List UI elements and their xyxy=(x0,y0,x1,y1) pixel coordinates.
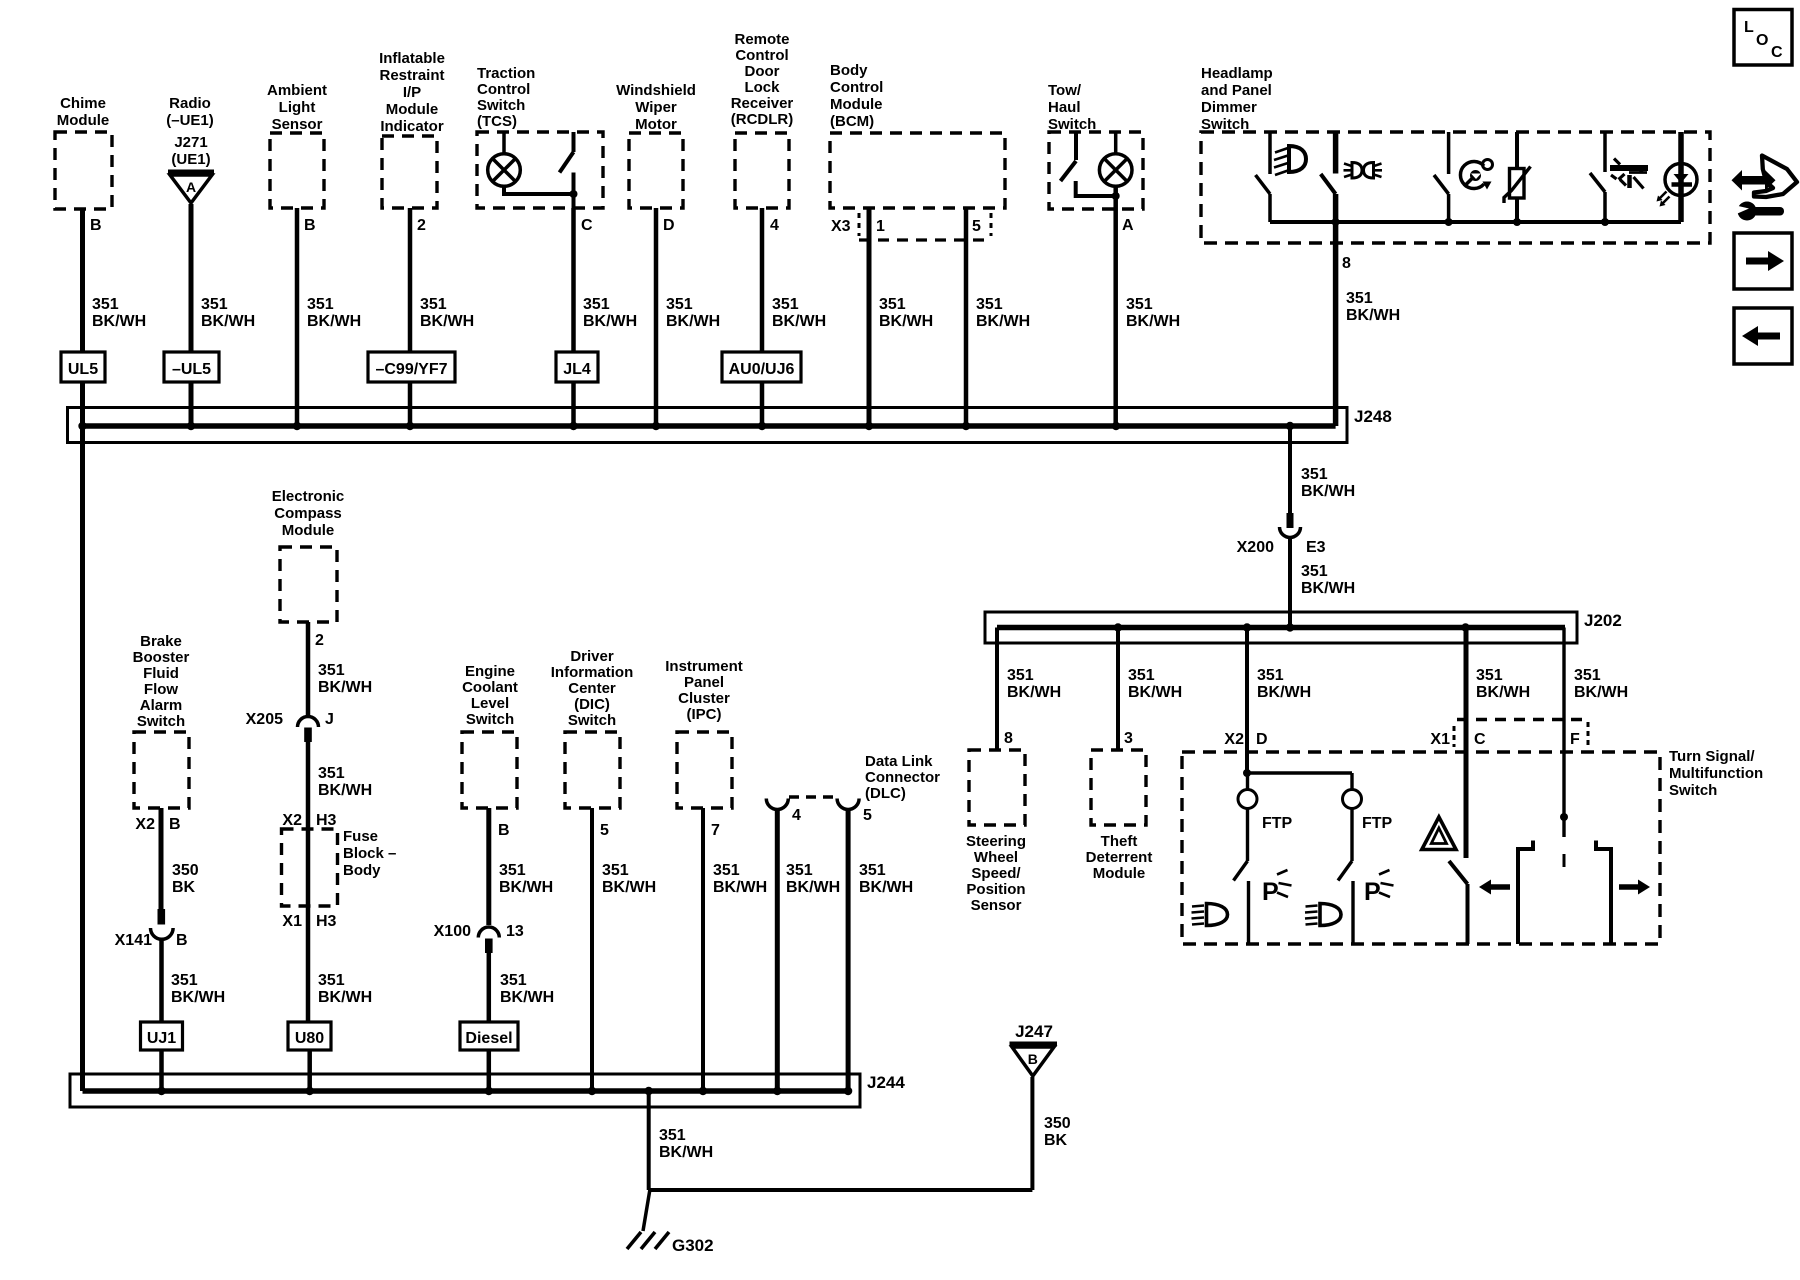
svg-text:Traction: Traction xyxy=(477,65,535,82)
svg-text:Module: Module xyxy=(57,112,110,129)
svg-text:Engine: Engine xyxy=(465,663,515,680)
wire label 351 BK/WH DLC4 xyxy=(786,862,840,896)
wire label 351 BK/WH fuse to U80 xyxy=(318,972,372,1006)
svg-text:BK/WH: BK/WH xyxy=(92,313,146,330)
connector X200 xyxy=(1280,513,1301,538)
svg-text:Wiper: Wiper xyxy=(635,99,677,116)
turn switch pole dash xyxy=(1563,854,1566,867)
fuse block label xyxy=(343,828,396,879)
svg-text:350: 350 xyxy=(172,862,199,879)
label JL4 xyxy=(556,352,598,382)
svg-text:Theft: Theft xyxy=(1101,833,1138,850)
svg-text:BK/WH: BK/WH xyxy=(500,989,554,1006)
splice pack J248 outline xyxy=(68,408,1348,443)
wire J247 to ground run xyxy=(1030,1077,1034,1190)
svg-text:Tow/: Tow/ xyxy=(1048,82,1082,99)
svg-text:BK/WH: BK/WH xyxy=(307,313,361,330)
svg-text:4: 4 xyxy=(792,807,801,824)
svg-text:7: 7 xyxy=(711,822,720,839)
svg-text:351: 351 xyxy=(772,296,799,313)
svg-text:351: 351 xyxy=(92,296,119,313)
svg-text:(UE1): (UE1) xyxy=(171,151,210,168)
svg-text:X141: X141 xyxy=(115,932,152,949)
svg-text:Flow: Flow xyxy=(144,681,178,698)
svg-text:351: 351 xyxy=(659,1127,686,1144)
svg-text:Control: Control xyxy=(830,79,883,96)
electronic compass module label xyxy=(272,488,345,539)
svg-text:351: 351 xyxy=(1007,667,1034,684)
svg-text:BK/WH: BK/WH xyxy=(1301,580,1355,597)
svg-text:Block –: Block – xyxy=(343,845,396,862)
svg-text:351: 351 xyxy=(976,296,1003,313)
svg-text:BK: BK xyxy=(1044,1132,1068,1149)
left FTP contact circle xyxy=(1238,790,1257,809)
svg-text:(TCS): (TCS) xyxy=(477,113,517,130)
engine coolant level switch box xyxy=(462,732,517,808)
splice pack J202 outline xyxy=(985,612,1577,643)
svg-text:351: 351 xyxy=(318,662,345,679)
svg-text:Ambient: Ambient xyxy=(267,82,327,99)
svg-text:Control: Control xyxy=(735,47,788,64)
wire ambient to bus J248 xyxy=(295,208,300,426)
tow/haul junction xyxy=(1112,192,1120,200)
label -UL5 xyxy=(164,352,219,382)
wire label 350 BK J247 xyxy=(1044,1115,1071,1149)
svg-text:UL5: UL5 xyxy=(68,361,98,378)
wire label 351 BK/WH BCM5 xyxy=(976,296,1030,330)
connector J271 (UE1) label xyxy=(171,134,210,168)
svg-text:13: 13 xyxy=(506,923,524,940)
svg-text:BK/WH: BK/WH xyxy=(1476,684,1530,701)
wire ground node to J247 riser xyxy=(649,1188,1033,1192)
svg-text:8: 8 xyxy=(1004,730,1013,747)
wire label 350 BK brake booster xyxy=(172,862,199,896)
svg-text:–UL5: –UL5 xyxy=(172,361,211,378)
svg-text:(–UE1): (–UE1) xyxy=(166,112,214,129)
DRL icon xyxy=(1344,163,1383,179)
svg-text:(IPC): (IPC) xyxy=(687,706,722,723)
windshield wiper motor box xyxy=(629,133,683,208)
svg-text:Lock: Lock xyxy=(744,79,780,96)
headlamp and panel dimmer switch box xyxy=(1201,132,1710,243)
svg-text:BK/WH: BK/WH xyxy=(318,989,372,1006)
svg-text:351: 351 xyxy=(786,862,813,879)
svg-text:Booster: Booster xyxy=(133,649,190,666)
wire RCDLR AU0/UJ6 to bus J248 xyxy=(760,382,765,426)
junction dots J202 xyxy=(1114,623,1470,631)
svg-text:Sensor: Sensor xyxy=(272,116,323,133)
svg-text:U80: U80 xyxy=(295,1030,324,1047)
wire X100 to Diesel xyxy=(487,953,492,1022)
connector X205 xyxy=(298,717,319,743)
svg-text:Electronic: Electronic xyxy=(272,488,345,505)
svg-text:BK/WH: BK/WH xyxy=(1574,684,1628,701)
left low beam icon xyxy=(1192,904,1228,926)
previous page arrow box xyxy=(1734,308,1792,364)
wire label 351 BK/WH IPC xyxy=(713,862,767,896)
svg-text:G302: G302 xyxy=(672,1236,714,1255)
wire DIC to J244 xyxy=(590,808,594,1091)
headlamp switch branch 1 xyxy=(1256,132,1271,222)
svg-text:Multifunction: Multifunction xyxy=(1669,765,1763,782)
inflatable restraint I/P module indicator label xyxy=(379,50,445,135)
instrument cluster icon xyxy=(1460,160,1492,190)
connector X100 xyxy=(478,927,499,953)
svg-text:J244: J244 xyxy=(867,1073,905,1092)
junction dot on F wire xyxy=(1560,813,1568,821)
splice pack J244 outline xyxy=(70,1074,860,1107)
svg-text:UJ1: UJ1 xyxy=(147,1030,176,1047)
svg-text:Compass: Compass xyxy=(274,505,342,522)
TCS lamp bottom wire xyxy=(504,186,574,194)
wire label 351 BK/WH BCM1 xyxy=(879,296,933,330)
wire RCDLR to AU0/UJ6 xyxy=(760,208,765,352)
inflatable restraint box xyxy=(382,136,437,208)
svg-text:351: 351 xyxy=(1346,290,1373,307)
svg-text:Remote: Remote xyxy=(734,31,789,48)
svg-text:C: C xyxy=(581,217,593,234)
svg-text:BK/WH: BK/WH xyxy=(1301,483,1355,500)
svg-text:Diesel: Diesel xyxy=(465,1030,512,1047)
svg-text:351: 351 xyxy=(666,296,693,313)
svg-text:351: 351 xyxy=(201,296,228,313)
svg-text:Module: Module xyxy=(386,101,439,118)
service cross-reference icon (double arrow, outline arrow, wrench) xyxy=(1732,156,1798,221)
svg-text:Module: Module xyxy=(830,96,883,113)
wire UJ1 to J244 xyxy=(159,1050,164,1091)
wire J202 to turn signal pin D xyxy=(1245,628,1249,774)
headlamp switch branch 3 xyxy=(1434,132,1449,222)
svg-text:Fluid: Fluid xyxy=(143,665,179,682)
turn switch left bracket xyxy=(1518,841,1533,945)
ground lead xyxy=(643,1189,650,1231)
wire label 351 BK/WH compass xyxy=(318,662,372,696)
svg-text:Panel: Panel xyxy=(684,674,724,691)
svg-text:351: 351 xyxy=(420,296,447,313)
wire chime to UL5 xyxy=(80,209,85,352)
svg-text:351: 351 xyxy=(583,296,610,313)
svg-text:D: D xyxy=(1256,731,1268,748)
svg-text:Module: Module xyxy=(1093,865,1146,882)
svg-text:BK/WH: BK/WH xyxy=(1346,307,1400,324)
chime module label xyxy=(57,95,110,129)
wire label 351 BK/WH chime xyxy=(92,296,146,330)
svg-text:(RCDLR): (RCDLR) xyxy=(731,111,793,128)
svg-text:J247: J247 xyxy=(1015,1022,1053,1041)
svg-text:C: C xyxy=(1771,44,1783,61)
left turn arrow xyxy=(1479,880,1510,895)
svg-text:Switch: Switch xyxy=(1669,782,1717,799)
label UJ1 xyxy=(141,1022,183,1050)
label AU0/UJ6 xyxy=(722,352,801,382)
fog lamp icon xyxy=(1610,159,1648,189)
wire label 351 BK/WH brake lower xyxy=(171,972,225,1006)
svg-text:P: P xyxy=(1364,878,1381,906)
svg-text:3: 3 xyxy=(1124,730,1133,747)
wire Diesel to J244 xyxy=(487,1050,492,1091)
junction dot D branch xyxy=(1243,769,1251,777)
tow/haul switch contacts xyxy=(1061,132,1116,196)
svg-text:P: P xyxy=(1262,878,1279,906)
label UL5 xyxy=(61,352,105,382)
svg-text:Sensor: Sensor xyxy=(971,897,1022,914)
svg-text:351: 351 xyxy=(859,862,886,879)
svg-text:Windshield: Windshield xyxy=(616,82,696,99)
svg-text:Body: Body xyxy=(343,862,381,879)
svg-text:Body: Body xyxy=(830,62,868,79)
instrument panel cluster label xyxy=(665,658,743,723)
wire label 351 BK/WH pin D xyxy=(1257,667,1311,701)
wire stub to left FTP circle xyxy=(1246,773,1249,790)
turn switch right bracket xyxy=(1596,841,1611,945)
X1 connector dashed header xyxy=(1454,720,1588,748)
traction control switch (TCS) label xyxy=(477,65,535,130)
wire stub to right FTP circle xyxy=(1350,773,1353,790)
wire label 351 BK/WH theft xyxy=(1128,667,1182,701)
ambient light sensor box xyxy=(270,133,324,208)
svg-text:Indicator: Indicator xyxy=(380,118,444,135)
wire label 351 BK/WH below X205 xyxy=(318,765,372,799)
svg-text:B: B xyxy=(176,932,188,949)
wire label 351 BK/WH ground xyxy=(659,1127,713,1161)
wire chime UL5 to J244 xyxy=(80,382,85,1091)
svg-text:B: B xyxy=(498,822,510,839)
TCS lamp xyxy=(488,132,521,186)
svg-text:BK/WH: BK/WH xyxy=(859,879,913,896)
connector X141 xyxy=(151,909,174,939)
headlamp switch internal bus xyxy=(1270,220,1681,224)
wire J248 to X200 xyxy=(1288,426,1292,513)
BCM box xyxy=(830,133,1005,208)
svg-text:D: D xyxy=(663,217,675,234)
svg-text:Wheel: Wheel xyxy=(974,849,1018,866)
windshield wiper motor label xyxy=(616,82,696,133)
svg-text:BK/WH: BK/WH xyxy=(786,879,840,896)
svg-text:X200: X200 xyxy=(1237,539,1274,556)
svg-text:351: 351 xyxy=(1257,667,1284,684)
svg-text:B: B xyxy=(90,217,102,234)
tow/haul lamp xyxy=(1099,132,1132,186)
svg-text:X100: X100 xyxy=(434,923,471,940)
svg-text:351: 351 xyxy=(1574,667,1601,684)
wire TCS to JL4 xyxy=(571,208,576,352)
theft deterrent label xyxy=(1086,833,1153,882)
svg-text:BK/WH: BK/WH xyxy=(318,782,372,799)
wire label 351 BK/WH wiper xyxy=(666,296,720,330)
svg-text:F: F xyxy=(1570,731,1580,748)
svg-text:Restraint: Restraint xyxy=(379,67,444,84)
wire label 351 BK/WH TCS xyxy=(583,296,637,330)
svg-text:351: 351 xyxy=(1301,563,1328,580)
svg-text:351: 351 xyxy=(500,972,527,989)
junction dots J244 xyxy=(157,1087,852,1095)
svg-text:BK/WH: BK/WH xyxy=(602,879,656,896)
wire radio to -UL5 xyxy=(189,204,194,352)
RCDLR box xyxy=(735,133,789,208)
svg-text:X1: X1 xyxy=(1430,731,1450,748)
DLC dashed link xyxy=(789,795,836,798)
wire compass to X205 xyxy=(306,622,311,717)
svg-text:Center: Center xyxy=(568,680,616,697)
svg-text:BK/WH: BK/WH xyxy=(713,879,767,896)
traction control switch box xyxy=(477,132,603,208)
svg-text:Switch: Switch xyxy=(568,712,616,729)
left FTP switch xyxy=(1234,809,1249,945)
svg-text:351: 351 xyxy=(499,862,526,879)
svg-text:Instrument: Instrument xyxy=(665,658,743,675)
svg-text:351: 351 xyxy=(1128,667,1155,684)
wire label 351 BK/WH radio xyxy=(201,296,255,330)
driver information center switch label xyxy=(551,648,634,729)
svg-text:Radio: Radio xyxy=(169,95,211,112)
turn signal switch label xyxy=(1669,748,1763,799)
TCS junction xyxy=(570,190,578,198)
svg-text:O: O xyxy=(1756,32,1768,49)
svg-text:351: 351 xyxy=(1476,667,1503,684)
wire J202 to turn signal pin F xyxy=(1562,628,1565,838)
wire J202 to turn signal pin C xyxy=(1464,628,1469,859)
svg-text:1: 1 xyxy=(876,218,885,235)
svg-text:Connector: Connector xyxy=(865,769,940,786)
ambient light sensor label xyxy=(267,82,327,133)
wire inflatable to -C99/YF7 xyxy=(408,208,413,352)
label -C99/YF7 xyxy=(368,352,455,382)
wire BCM pin5 to bus J248 xyxy=(964,208,969,426)
wire label 351 BK/WH tow/haul xyxy=(1126,296,1180,330)
svg-text:Steering: Steering xyxy=(966,833,1026,850)
svg-text:5: 5 xyxy=(863,807,872,824)
junction dots on internal bus xyxy=(1332,218,1340,226)
tow/haul switch label xyxy=(1048,82,1096,133)
wire DLC4 to J244 xyxy=(775,809,780,1091)
wire TCS JL4 to bus J248 xyxy=(571,382,576,426)
right turn arrow xyxy=(1619,880,1650,895)
svg-text:E3: E3 xyxy=(1306,539,1326,556)
svg-text:BK/WH: BK/WH xyxy=(1126,313,1180,330)
wire U80 to J244 xyxy=(307,1050,312,1091)
TCS switch xyxy=(560,132,574,208)
svg-text:BK/WH: BK/WH xyxy=(171,989,225,1006)
svg-text:5: 5 xyxy=(972,218,981,235)
svg-text:4: 4 xyxy=(770,217,779,234)
right FTP switch xyxy=(1338,809,1353,945)
hazard switch blade xyxy=(1449,861,1468,944)
svg-text:H3: H3 xyxy=(316,812,337,829)
svg-text:BK: BK xyxy=(172,879,196,896)
wire label 351 BK/WH DIC xyxy=(602,862,656,896)
svg-text:Door: Door xyxy=(745,63,780,80)
LOC box xyxy=(1734,10,1792,66)
DIC switch box xyxy=(565,732,620,808)
svg-text:351: 351 xyxy=(713,862,740,879)
svg-text:Haul: Haul xyxy=(1048,99,1081,116)
svg-text:BK/WH: BK/WH xyxy=(1128,684,1182,701)
svg-text:J202: J202 xyxy=(1584,611,1622,630)
svg-text:351: 351 xyxy=(879,296,906,313)
svg-text:Information: Information xyxy=(551,664,634,681)
headlamp and panel dimmer switch label xyxy=(1201,65,1273,133)
svg-text:B: B xyxy=(169,816,181,833)
svg-text:A: A xyxy=(186,179,196,195)
wire wiper to bus J248 xyxy=(654,208,659,426)
headlamp beam icon xyxy=(1274,146,1306,175)
wire radio -UL5 to bus J248 xyxy=(189,382,194,426)
wire across FTP contacts xyxy=(1247,771,1352,774)
svg-text:Dimmer: Dimmer xyxy=(1201,99,1257,116)
svg-text:BK/WH: BK/WH xyxy=(879,313,933,330)
IPC box xyxy=(677,732,732,808)
svg-text:–C99/YF7: –C99/YF7 xyxy=(375,361,447,378)
svg-text:8: 8 xyxy=(1342,255,1351,272)
splice pack J248 bus bar xyxy=(80,423,1336,429)
wire label 351 BK/WH coolant xyxy=(499,862,553,896)
svg-text:BK/WH: BK/WH xyxy=(659,1144,713,1161)
svg-text:BK/WH: BK/WH xyxy=(1257,684,1311,701)
rheostat branch xyxy=(1504,132,1531,222)
wire label 351 BK/WH DLC5 xyxy=(859,862,913,896)
svg-text:Switch: Switch xyxy=(466,711,514,728)
svg-text:5: 5 xyxy=(600,822,609,839)
wire label 351 BK/WH headlamp xyxy=(1346,290,1400,324)
svg-text:Module: Module xyxy=(282,522,335,539)
wire label 351 BK/WH above X200 xyxy=(1301,466,1355,500)
svg-text:BK/WH: BK/WH xyxy=(318,679,372,696)
right park lamp icon P xyxy=(1364,870,1394,906)
svg-text:X2: X2 xyxy=(1224,731,1244,748)
svg-text:AU0/UJ6: AU0/UJ6 xyxy=(729,361,795,378)
svg-text:X1: X1 xyxy=(282,913,302,930)
svg-text:BK/WH: BK/WH xyxy=(772,313,826,330)
wire label 351 BK/WH ambient xyxy=(307,296,361,330)
svg-text:B: B xyxy=(1028,1051,1038,1067)
wire J202 to theft deterrent xyxy=(1116,628,1120,751)
wire X200 to J202 xyxy=(1288,539,1292,629)
hazard warning triangle icon xyxy=(1422,817,1456,850)
wire headlamp switch to bus J248 xyxy=(1333,194,1339,426)
svg-text:Level: Level xyxy=(471,695,509,712)
svg-text:FTP: FTP xyxy=(1362,815,1393,832)
svg-text:X2: X2 xyxy=(282,812,302,829)
wire J202 to steering sensor xyxy=(995,628,999,751)
brake booster fluid flow alarm switch label xyxy=(133,633,190,730)
svg-text:FTP: FTP xyxy=(1262,815,1293,832)
tow/haul switch box xyxy=(1049,132,1143,209)
svg-text:2: 2 xyxy=(417,217,426,234)
svg-text:H3: H3 xyxy=(316,913,337,930)
svg-text:Cluster: Cluster xyxy=(678,690,730,707)
svg-text:BK/WH: BK/WH xyxy=(583,313,637,330)
wire label 351 BK/WH pin C xyxy=(1476,667,1530,701)
wire BCM pin1 to bus J248 xyxy=(867,208,872,426)
right FTP contact circle xyxy=(1343,790,1362,809)
svg-text:Data Link: Data Link xyxy=(865,753,933,770)
svg-text:350: 350 xyxy=(1044,1115,1071,1132)
svg-text:Brake: Brake xyxy=(140,633,182,650)
svg-text:Speed/: Speed/ xyxy=(971,865,1021,882)
svg-text:Switch: Switch xyxy=(477,97,525,114)
remote control door lock receiver label xyxy=(731,31,794,128)
svg-text:Driver: Driver xyxy=(570,648,614,665)
wire brake booster to X141 xyxy=(159,808,164,909)
body control module (BCM) label xyxy=(830,62,883,130)
DLC left receptacle xyxy=(766,799,788,810)
svg-text:Turn Signal/: Turn Signal/ xyxy=(1669,748,1755,765)
svg-text:Deterrent: Deterrent xyxy=(1086,849,1153,866)
svg-text:BK/WH: BK/WH xyxy=(666,313,720,330)
svg-text:BK/WH: BK/WH xyxy=(976,313,1030,330)
LED branch xyxy=(1657,132,1698,222)
svg-text:2: 2 xyxy=(315,632,324,649)
